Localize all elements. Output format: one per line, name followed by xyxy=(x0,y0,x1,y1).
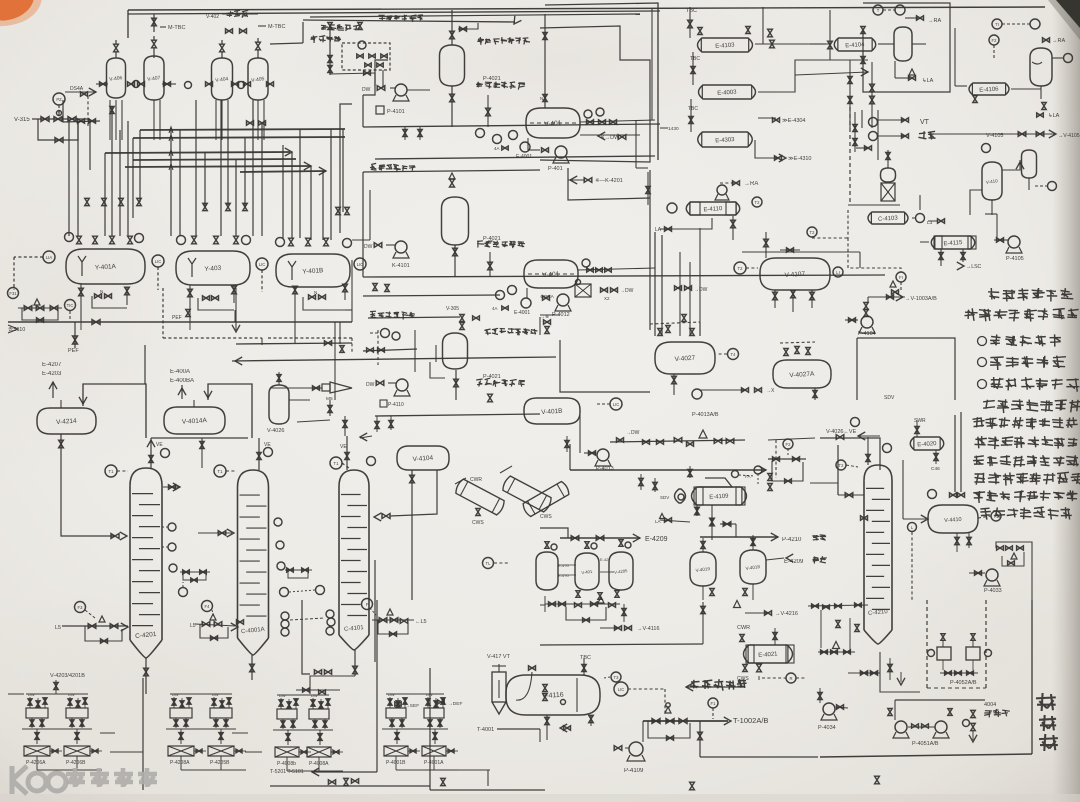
svg-text:P-4021: P-4021 xyxy=(483,76,501,82)
svg-text:→DW: →DW xyxy=(694,287,708,293)
svg-text:LIA: LIA xyxy=(46,255,52,260)
svg-text:F31: F31 xyxy=(9,291,17,296)
svg-text:TBC: TBC xyxy=(688,106,698,112)
svg-text:SWR: SWR xyxy=(914,418,926,424)
svg-text:PZ: PZ xyxy=(56,97,62,102)
svg-text:P-4110: P-4110 xyxy=(388,402,404,408)
svg-text:E-4209: E-4209 xyxy=(645,536,668,543)
svg-text:DW: DW xyxy=(364,244,373,250)
svg-text:→RA: →RA xyxy=(1052,38,1065,44)
svg-text:↳LA: ↳LA xyxy=(922,77,934,84)
svg-text:V-4410: V-4410 xyxy=(944,517,962,524)
svg-text:V-401: V-401 xyxy=(544,120,562,128)
svg-text:CWS: CWS xyxy=(540,514,552,520)
svg-text:V-4214: V-4214 xyxy=(56,418,77,426)
svg-text:V-305: V-305 xyxy=(446,306,459,312)
svg-text:P-4013: P-4013 xyxy=(596,466,614,472)
svg-text:→LSC: →LSC xyxy=(966,264,982,270)
svg-text:L5: L5 xyxy=(55,625,61,631)
svg-text:E-4207: E-4207 xyxy=(42,362,62,368)
svg-text:PEF: PEF xyxy=(68,348,79,354)
svg-text:P-4210: P-4210 xyxy=(782,537,802,543)
svg-text:V-401: V-401 xyxy=(542,271,560,279)
svg-text:→V-4216: →V-4216 xyxy=(775,611,798,617)
svg-text:P-4206A: P-4206A xyxy=(26,760,46,766)
svg-text:V-4026←VE: V-4026←VE xyxy=(826,429,857,435)
svg-text:F: F xyxy=(366,602,369,607)
svg-text:T-5201 T-5101: T-5201 T-5101 xyxy=(270,769,304,775)
svg-text:→SEF: →SEF xyxy=(405,703,419,709)
svg-text:V-4203/4201B: V-4203/4201B xyxy=(50,673,85,679)
svg-text:LI: LI xyxy=(836,270,840,275)
svg-text:CWR: CWR xyxy=(737,625,750,631)
svg-text:F1: F1 xyxy=(711,701,717,706)
svg-text:V-417 VT: V-417 VT xyxy=(487,654,511,660)
svg-text:E-400A: E-400A xyxy=(170,369,190,375)
svg-text:4A: 4A xyxy=(494,146,500,151)
svg-text:T3: T3 xyxy=(614,675,620,680)
svg-text:E-4?0: E-4?0 xyxy=(558,563,569,568)
svg-text:CWR: CWR xyxy=(470,477,482,483)
svg-text:T1: T1 xyxy=(334,461,340,466)
svg-text:→V-1003A/B: →V-1003A/B xyxy=(905,296,937,302)
svg-text:LA: LA xyxy=(655,227,662,233)
svg-text:P-401: P-401 xyxy=(548,166,563,172)
svg-text:FI: FI xyxy=(899,275,903,280)
svg-text:N: N xyxy=(100,289,103,294)
svg-text:Y-403: Y-403 xyxy=(204,265,222,273)
svg-text:LIC: LIC xyxy=(357,262,364,267)
svg-text:V-4104: V-4104 xyxy=(412,455,433,463)
svg-text:TBC: TBC xyxy=(690,56,700,62)
svg-text:LIC: LIC xyxy=(155,259,162,264)
svg-text:F2: F2 xyxy=(786,442,792,447)
svg-text:TI: TI xyxy=(995,22,999,27)
svg-text:P-4034: P-4034 xyxy=(818,725,836,731)
svg-text:SDV: SDV xyxy=(884,395,895,401)
svg-text:P-4105: P-4105 xyxy=(1006,256,1024,262)
svg-text:T2: T2 xyxy=(738,266,744,271)
svg-text:CWS: CWS xyxy=(472,520,484,526)
svg-text:K-4101: K-4101 xyxy=(392,263,410,269)
svg-text:E-4001: E-4001 xyxy=(514,310,530,316)
svg-text:T2: T2 xyxy=(839,463,845,468)
svg-text:E-4203: E-4203 xyxy=(42,371,62,377)
svg-text:V-402: V-402 xyxy=(206,14,219,20)
svg-text:LIC: LIC xyxy=(618,687,625,692)
svg-text:→DW: →DW xyxy=(620,288,634,294)
svg-text:TBC: TBC xyxy=(686,8,697,14)
svg-text:DW: DW xyxy=(362,87,371,93)
svg-text:N: N xyxy=(314,290,317,295)
svg-text:V-315: V-315 xyxy=(14,117,30,123)
svg-text:TL: TL xyxy=(486,561,492,566)
svg-text:P-4101: P-4101 xyxy=(387,109,405,115)
svg-text:V-401B: V-401B xyxy=(541,408,563,416)
svg-text:※—K-4201: ※—K-4201 xyxy=(595,177,623,184)
svg-text:F4: F4 xyxy=(205,604,211,609)
svg-text:E-400BA: E-400BA xyxy=(170,378,194,384)
svg-text:V-4027: V-4027 xyxy=(674,355,695,363)
svg-text:P-4051A/B: P-4051A/B xyxy=(912,741,939,747)
svg-text:T: T xyxy=(877,8,880,13)
svg-text:L5: L5 xyxy=(190,623,196,629)
svg-text:V-4026: V-4026 xyxy=(267,428,284,434)
svg-text:R: R xyxy=(789,676,792,681)
svg-text:E-4?0: E-4?0 xyxy=(558,573,569,578)
svg-text:↳LA: ↳LA xyxy=(1048,112,1060,119)
svg-text:LIC: LIC xyxy=(259,262,266,267)
svg-text:T1: T1 xyxy=(109,469,115,474)
svg-text:E-4001: E-4001 xyxy=(516,154,532,160)
svg-text:DW: DW xyxy=(366,382,375,388)
svg-text:C46: C46 xyxy=(931,466,940,472)
svg-text:VE: VE xyxy=(340,444,347,450)
svg-text:4004: 4004 xyxy=(984,702,996,708)
svg-text:T-1002A/B: T-1002A/B xyxy=(733,716,768,725)
svg-text:→DEF: →DEF xyxy=(448,701,462,707)
svg-text:P-4052A/B: P-4052A/B xyxy=(950,680,977,686)
svg-text:≫E-4304: ≫E-4304 xyxy=(782,118,806,124)
svg-text:→V-4105: →V-4105 xyxy=(1058,133,1080,139)
svg-text:Y-401B: Y-401B xyxy=(302,267,324,275)
svg-text:X2: X2 xyxy=(604,296,610,301)
svg-text:V-4107: V-4107 xyxy=(784,271,805,279)
svg-text:T2: T2 xyxy=(755,200,761,205)
svg-text:F2: F2 xyxy=(992,38,998,43)
svg-text:T4: T4 xyxy=(731,352,737,357)
svg-text:M-TBC: M-TBC xyxy=(268,24,285,30)
svg-text:P-4109: P-4109 xyxy=(624,768,644,774)
svg-text:P-4104: P-4104 xyxy=(858,331,876,337)
svg-text:→V-4116: →V-4116 xyxy=(637,626,660,632)
svg-text:N: N xyxy=(540,96,543,101)
svg-text:PEF: PEF xyxy=(172,315,182,321)
svg-text:FA: FA xyxy=(745,474,751,479)
svg-text:E-4209: E-4209 xyxy=(784,559,804,565)
svg-text:TIC: TIC xyxy=(67,303,74,308)
svg-text:E-42: E-42 xyxy=(600,557,609,562)
svg-text:M-TBC: M-TBC xyxy=(168,25,185,31)
svg-text:LA: LA xyxy=(655,519,661,524)
svg-text:LIC: LIC xyxy=(613,402,620,407)
svg-text:P-4033: P-4033 xyxy=(984,588,1002,594)
svg-text:T2: T2 xyxy=(810,230,816,235)
svg-text:→X: →X xyxy=(766,388,775,394)
svg-text:P-4013A/B: P-4013A/B xyxy=(692,412,719,418)
svg-text:※PRA: ※PRA xyxy=(540,294,555,300)
svg-text:P-4206B: P-4206B xyxy=(66,760,86,766)
svg-text:P-4208A: P-4208A xyxy=(170,760,190,766)
svg-text:P-4205B: P-4205B xyxy=(210,760,230,766)
svg-text:TBC: TBC xyxy=(580,655,591,661)
svg-text:CWS: CWS xyxy=(737,676,749,682)
svg-text:≫E-4310: ≫E-4310 xyxy=(788,156,812,162)
svg-text:→DW: →DW xyxy=(626,430,640,436)
svg-text:SDV: SDV xyxy=(660,495,669,500)
svg-text:→RA: →RA xyxy=(744,181,758,187)
svg-text:1430: 1430 xyxy=(668,126,679,132)
svg-text:T-4001: T-4001 xyxy=(477,727,494,733)
svg-text:→RA: →RA xyxy=(928,18,941,24)
svg-text:←L5: ←L5 xyxy=(415,619,427,625)
svg-text:VT: VT xyxy=(920,119,930,126)
svg-text:4A: 4A xyxy=(492,306,498,311)
svg-text:F3: F3 xyxy=(78,605,84,610)
svg-text:DS4A: DS4A xyxy=(70,86,84,92)
svg-text:T1: T1 xyxy=(218,469,224,474)
svg-text:VE: VE xyxy=(156,442,163,448)
